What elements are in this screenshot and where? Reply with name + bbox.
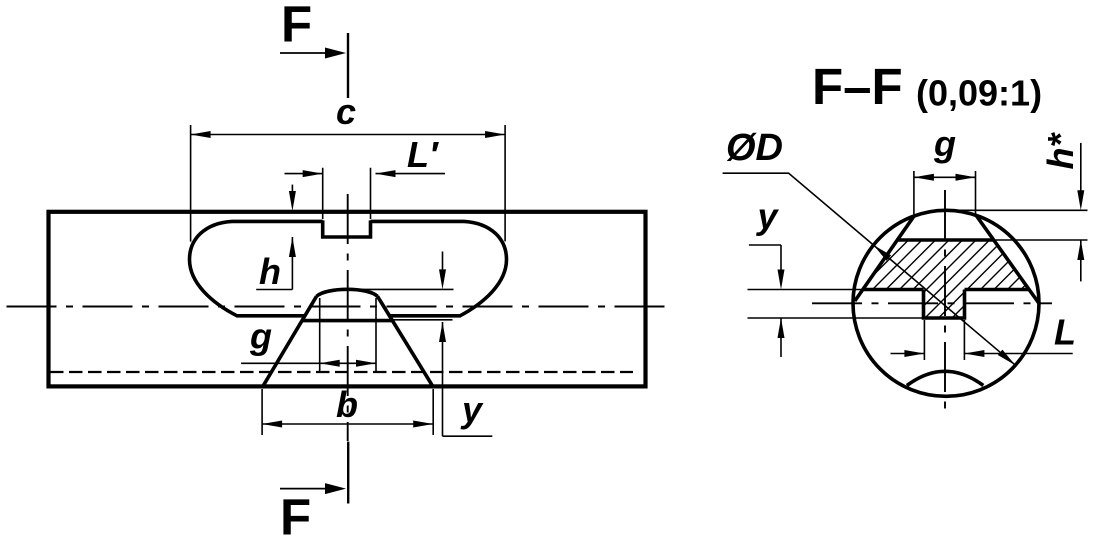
dimension h* extension lines	[946, 210, 1088, 240]
dimension y section extension lines	[748, 290, 924, 319]
circle vertical centerline	[944, 190, 946, 416]
svg-text:h: h	[259, 251, 281, 292]
dimension b line	[262, 423, 433, 425]
section arrow F bottom	[280, 488, 327, 490]
section line F top	[347, 33, 349, 98]
svg-text:b: b	[336, 384, 358, 425]
svg-text:F–F: F–F	[812, 58, 903, 115]
dimension y bottom arrow	[442, 322, 444, 436]
vertical centerline	[347, 194, 349, 441]
dimension c line	[191, 134, 506, 136]
diameter leader line	[723, 173, 1016, 365]
dimension L left line	[891, 353, 925, 355]
root line thin extension	[393, 319, 453, 321]
dimension L' left arrow	[303, 170, 323, 177]
hatch top line	[897, 238, 994, 242]
right chord	[976, 215, 1040, 305]
diameter arrow upper	[874, 245, 892, 261]
dimension y leader	[443, 435, 493, 437]
left chord	[855, 216, 914, 301]
dimension g line	[241, 362, 376, 364]
bottom cup arc	[907, 371, 983, 385]
section arrow F top	[280, 52, 327, 54]
dimension g section line	[914, 176, 976, 178]
dimension g left arrow	[320, 360, 340, 367]
dimension h leader	[256, 289, 292, 291]
dimension g extension lines	[320, 298, 376, 373]
dimension h* bottom arrow	[1080, 240, 1082, 281]
dimension L left arrow	[904, 350, 924, 357]
svg-text:F: F	[281, 0, 312, 53]
section line F bottom	[347, 442, 349, 504]
svg-text:h*: h*	[1040, 132, 1081, 170]
weld pool stadium right part	[371, 221, 507, 315]
dimension g right arrow	[356, 360, 376, 367]
root line inside trapezoid	[302, 319, 393, 323]
svg-text:(0,09:1): (0,09:1)	[916, 73, 1042, 114]
dimension h bottom arrow	[291, 237, 293, 290]
root dome	[317, 289, 378, 296]
dimension L' left line	[285, 173, 323, 175]
svg-text:ØD: ØD	[726, 127, 783, 169]
root line right	[965, 288, 1029, 292]
dimension L right line	[964, 353, 1072, 355]
dimension h* top arrow	[1080, 143, 1082, 191]
dimension y top extension line	[348, 288, 454, 290]
svg-text:L′: L′	[407, 134, 439, 175]
top notch	[323, 220, 371, 237]
svg-text:F: F	[280, 489, 311, 541]
dimension c extension lines	[191, 125, 506, 242]
dimension L extension lines	[924, 320, 964, 360]
bar outline	[49, 212, 646, 387]
svg-text:g: g	[249, 316, 272, 357]
circle horizontal centerline	[812, 302, 1052, 304]
dimension y top arrow	[442, 252, 444, 271]
circle outline	[853, 210, 1039, 396]
dimension y section top arrow	[780, 245, 782, 270]
left slant of trapezoid	[262, 296, 317, 388]
right slant of trapezoid	[378, 296, 434, 388]
dimension L right arrow	[964, 350, 984, 357]
dimension c right arrow	[485, 131, 505, 138]
svg-text:y: y	[460, 389, 484, 430]
dimension y section leader	[749, 244, 781, 246]
svg-text:L: L	[1054, 312, 1076, 353]
hatching	[783, 235, 1100, 325]
dimension b extension lines	[262, 389, 433, 435]
svg-text:c: c	[336, 91, 356, 132]
dimension L' right arrow	[376, 170, 396, 177]
dimension g section extension lines	[914, 171, 976, 216]
dimension g section right arrow	[956, 174, 976, 181]
dimension g section left arrow	[914, 174, 934, 181]
diameter arrow lower	[998, 350, 1016, 366]
svg-text:g: g	[933, 123, 956, 164]
root notch	[924, 290, 965, 319]
dimension y section bottom arrow	[780, 318, 782, 357]
dimension b right arrow	[413, 421, 433, 428]
horizontal centerline	[7, 306, 671, 308]
svg-text:y: y	[756, 196, 780, 237]
dimension L' extension lines	[323, 168, 371, 219]
dimension c left arrow	[191, 131, 211, 138]
root line left	[862, 288, 923, 292]
dimension h top arrow	[291, 185, 293, 192]
dimension b left arrow	[262, 421, 282, 428]
dimension L' right line	[376, 173, 446, 175]
weld pool stadium left part	[190, 221, 323, 315]
hidden dashed line	[50, 371, 633, 373]
